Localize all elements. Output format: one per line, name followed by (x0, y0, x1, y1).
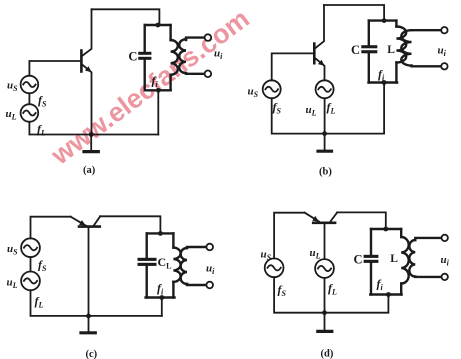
label (c) (86, 349, 98, 359)
transformer secondary (d) (409, 238, 441, 277)
transistor Q4 emitter (305, 213, 319, 222)
svg-text:uL: uL (6, 108, 17, 122)
ground (a) (84, 135, 98, 152)
svg-text:fL: fL (327, 100, 336, 116)
label uS (c) (7, 243, 18, 256)
label (a) (83, 165, 96, 176)
ground (b) (318, 134, 332, 152)
svg-text:uS: uS (7, 80, 18, 94)
label fi (a) (152, 73, 159, 89)
svg-text:fS: fS (273, 100, 282, 116)
transformer primary (c) (173, 233, 180, 297)
svg-text:C: C (128, 50, 137, 64)
transformer primary L (d) (401, 229, 409, 295)
transistor Q3 emitter (71, 217, 86, 226)
terminal top (c) (206, 244, 213, 251)
label CL (c) (158, 255, 172, 271)
svg-text:fi: fi (378, 67, 385, 83)
capacitor C (b) plates (361, 45, 377, 53)
svg-text:C: C (354, 253, 363, 267)
circuit (b) mixer with LO in emitter (248, 5, 448, 177)
transistor Q4 collector (330, 212, 337, 222)
label fS (b) (273, 100, 282, 116)
terminal bottom (a) (205, 71, 212, 78)
node tank top (c) (158, 231, 163, 236)
tank top bar (c) (147, 232, 174, 234)
tank bottom bar (b) (369, 81, 398, 83)
node tank bottom (b) (382, 80, 387, 85)
label uL (d) (310, 247, 321, 261)
transistor Q3 base bar (79, 225, 100, 228)
capacitor C (d) leads (370, 229, 372, 295)
capacitor C (a) plates (138, 52, 151, 60)
svg-text:fi: fi (157, 281, 164, 297)
capacitor CL (c) leads (145, 233, 147, 297)
wire base feed (b) (272, 53, 314, 80)
wire tank to rail (c) (161, 298, 163, 316)
transistor Q3 collector (94, 216, 101, 226)
svg-text:fS: fS (38, 93, 47, 109)
source uS (a) (21, 76, 39, 94)
label ui (c) (206, 262, 215, 276)
node ground junction (d) (322, 310, 327, 315)
circuit (a) common-emitter mixer (6, 9, 224, 176)
label L (b) (387, 44, 395, 56)
node tank bottom (a) (156, 88, 161, 93)
transistor Q1 emitter (82, 65, 92, 135)
svg-text:ui: ui (441, 254, 450, 268)
label L (d) (390, 253, 398, 265)
label fL (b) (327, 100, 336, 116)
svg-text:ui: ui (206, 262, 215, 276)
svg-text:uS: uS (7, 243, 18, 256)
label fi (c) (157, 281, 164, 297)
wire uL bottom (d) (324, 278, 326, 313)
label uS (b) (248, 85, 259, 99)
wire collector to tank (d) (337, 212, 386, 229)
svg-text:uL: uL (306, 104, 317, 118)
svg-text:uL: uL (310, 247, 321, 261)
svg-text:www.elecfans.com: www.elecfans.com (45, 3, 255, 171)
node ground junction (c) (86, 314, 91, 319)
terminal top (b) (441, 27, 447, 33)
terminal bottom (d) (442, 274, 448, 280)
label fi (d) (377, 277, 384, 293)
node tank bottom (c) (159, 295, 164, 300)
capacitor C (b) leads (368, 21, 370, 83)
tank bottom bar (d) (370, 293, 401, 295)
label uL (c) (7, 276, 18, 290)
svg-text:uS: uS (261, 248, 272, 262)
label C (d) (354, 253, 363, 267)
ground (d) (318, 313, 332, 332)
transistor Q2 collector (315, 5, 324, 49)
svg-text:fL: fL (35, 294, 44, 310)
label fi (b) (378, 67, 385, 83)
circuit (d) common-base mixer with LO in base (261, 212, 450, 359)
svg-text:uL: uL (7, 276, 18, 290)
label ui (a) (214, 47, 223, 61)
svg-text:ui: ui (438, 44, 447, 58)
node tank top (b) (382, 18, 387, 23)
wire uL bottom (c) (31, 290, 162, 316)
transistor Q1 base bar (80, 51, 83, 72)
source uS (d) (265, 258, 284, 277)
wire emitter feed (d) (274, 213, 305, 259)
watermark www.elecfans.com (45, 3, 255, 171)
svg-text:fL: fL (328, 281, 337, 297)
wire uS bottom (b) (272, 83, 384, 134)
circuit (c) common-base mixer (7, 216, 216, 359)
svg-text:CL: CL (158, 255, 172, 271)
terminal top (a) (205, 34, 212, 41)
transistor Q4 base bar (313, 222, 335, 225)
wire emitter feed (c) (31, 217, 71, 239)
transformer primary L (b) (396, 21, 406, 83)
ground (c) (81, 316, 95, 333)
label ui (d) (441, 254, 450, 268)
wire source link (a) (28, 93, 30, 104)
svg-text:fL: fL (37, 122, 46, 138)
wire uS bottom (d) (274, 277, 388, 313)
label uS (a) (7, 80, 18, 94)
svg-text:(b): (b) (319, 166, 332, 177)
terminal top (d) (442, 235, 448, 241)
node tank top (a) (156, 23, 161, 28)
source uL (a) (21, 104, 39, 122)
label uL (b) (306, 104, 317, 118)
wire base feed (a) (29, 61, 80, 76)
wire top rail (b) (324, 5, 384, 21)
label (d) (321, 348, 334, 359)
tank top bar (a) (145, 24, 171, 26)
wire source link (c) (30, 257, 32, 271)
wire collector to tank (c) (100, 216, 160, 233)
label (b) (319, 166, 332, 177)
label fL (d) (328, 281, 337, 297)
node tank bottom (d) (386, 292, 391, 297)
svg-text:(a): (a) (83, 165, 96, 176)
svg-text:(c): (c) (86, 349, 98, 359)
wire uL bottom (b) (324, 98, 326, 133)
svg-text:fS: fS (38, 257, 47, 273)
transformer secondary (c) (181, 247, 205, 285)
source uL (c) (21, 272, 40, 291)
capacitor CL (c) plates (138, 258, 157, 266)
transistor Q3 base lead (88, 228, 90, 316)
label uL (a) (6, 108, 17, 122)
wire top rail (a) (92, 9, 160, 25)
label uS (d) (261, 248, 272, 262)
label fL (c) (35, 294, 44, 310)
transistor Q2 base bar (313, 44, 316, 64)
transformer secondary (b) (401, 30, 441, 66)
transformer secondary (a) (179, 38, 204, 74)
node emitter-ground junction (a) (89, 132, 94, 137)
tank bottom bar (a) (145, 89, 171, 91)
tank top bar (d) (371, 228, 401, 230)
transistor Q2 emitter (315, 58, 325, 80)
wire tank to rail (a) (157, 90, 159, 134)
svg-text:fS: fS (278, 282, 287, 298)
transistor Q4 base lead (324, 224, 326, 259)
transistor Q1 collector (82, 9, 92, 56)
label fS (d) (278, 282, 287, 298)
node tank top (d) (383, 227, 388, 232)
label C (b) (351, 43, 360, 57)
svg-text:fi: fi (377, 277, 384, 293)
source uL (b) (316, 80, 334, 98)
transformer primary L (a) (171, 25, 178, 90)
wire bottom rail (a) (29, 122, 158, 135)
source uS (c) (21, 238, 40, 257)
capacitor C (d) plates (364, 255, 379, 263)
label fS (c) (38, 257, 47, 273)
label C (a) (128, 50, 137, 64)
svg-text:L: L (387, 44, 395, 56)
svg-text:C: C (351, 43, 360, 57)
tank top bar (b) (369, 19, 397, 21)
source uS (b) (263, 80, 281, 98)
node ground junction (b) (322, 131, 327, 136)
terminal bottom (b) (441, 63, 447, 69)
terminal bottom (c) (206, 282, 213, 289)
svg-text:(d): (d) (321, 348, 334, 359)
svg-text:uS: uS (248, 85, 259, 99)
label fL (a) (37, 122, 46, 138)
label ui (b) (438, 44, 447, 58)
label fS (a) (38, 93, 47, 109)
source uL (d) (315, 259, 334, 278)
capacitor C (a) leads (143, 25, 145, 90)
tank bottom bar (c) (146, 296, 175, 298)
svg-text:L: L (390, 253, 398, 265)
